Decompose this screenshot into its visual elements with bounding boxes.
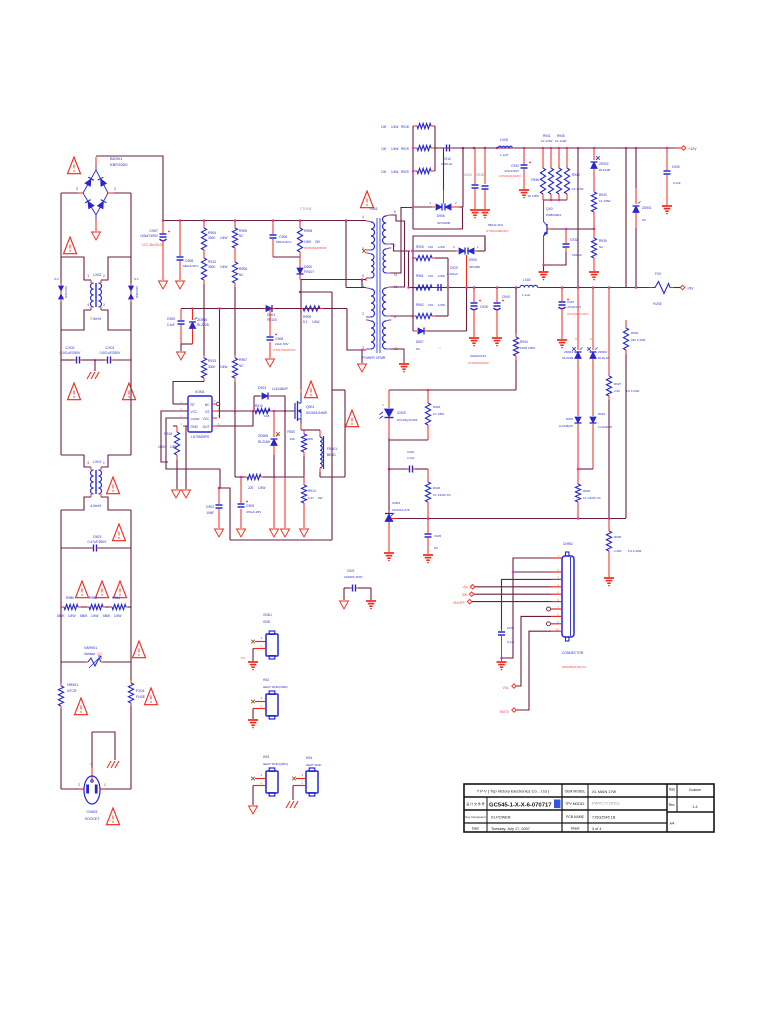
wire rails to C903 row xyxy=(60,510,62,548)
svg-text:R913: R913 xyxy=(208,359,216,363)
ground (C918) power xyxy=(480,209,490,211)
svg-text:5: 5 xyxy=(218,422,220,426)
svg-text:RLZ13B: RLZ13B xyxy=(599,168,610,172)
svg-text:RLZ16B: RLZ16B xyxy=(258,440,270,444)
svg-text:NC: NC xyxy=(239,234,244,238)
svg-text:FR103: FR103 xyxy=(267,318,277,322)
svg-text:1K8: 1K8 xyxy=(264,414,270,418)
ground (R900) power xyxy=(604,577,614,579)
wire R914 column xyxy=(303,477,305,485)
junction X-cap row xyxy=(94,359,96,361)
svg-text:ZD906: ZD906 xyxy=(197,318,207,322)
svg-text:2: 2 xyxy=(260,781,262,785)
svg-text:ZD901: ZD901 xyxy=(564,350,573,354)
svg-text:D916: D916 xyxy=(598,412,606,416)
ground (R939) power xyxy=(589,271,599,273)
warning triangle (below CX01) xyxy=(123,383,136,400)
resistor R920 10K 1/8W xyxy=(301,429,304,431)
wire x448 loop xyxy=(447,258,449,316)
wire ZD905 col to ground xyxy=(273,477,275,528)
wire socket earth loop xyxy=(92,732,115,760)
ferrite bead FB901 xyxy=(319,430,321,437)
svg-text:+12V: +12V xyxy=(688,147,697,151)
svg-text:1/4W: 1/4W xyxy=(438,303,445,307)
resistor R914 0.47 2W xyxy=(301,485,306,503)
svg-text:0.001uF/250V: 0.001uF/250V xyxy=(100,351,122,355)
resistor R942 1K 1/10W 1% xyxy=(577,469,579,484)
wire C905/ZD906 bottom xyxy=(181,343,193,345)
op-amp/PWM IC901 LD7552BPS body xyxy=(188,396,212,432)
transformer secondary winding pin 12 xyxy=(389,319,391,321)
warning triangle (left rail) xyxy=(64,237,77,254)
wire pin9 to pin10 xyxy=(391,215,405,287)
wire to earth ground xyxy=(94,360,96,371)
wire D906 center tap up xyxy=(443,190,445,204)
svg-text:R942: R942 xyxy=(583,489,591,493)
svg-text:PNB02804: PNB02804 xyxy=(546,213,561,217)
capacitor C932 1000uF xyxy=(565,229,567,243)
resistor R915 100K 1/8W xyxy=(173,425,177,427)
wire source node xyxy=(304,429,320,431)
capacitor C930 0.1uF xyxy=(666,148,668,170)
svg-text:1: 1 xyxy=(181,400,183,404)
capacitor C929 0.001uF xyxy=(435,287,437,289)
svg-text:MUTE: MUTE xyxy=(500,710,509,714)
wire IC901 OUT xyxy=(217,411,253,426)
resistor R909 5.1 1/4W xyxy=(300,308,303,310)
no-connect X on pin 5 xyxy=(362,249,366,253)
terminal +5V xyxy=(470,585,475,590)
svg-text:1.1uH: 1.1uH xyxy=(500,153,508,157)
svg-text:0.47: 0.47 xyxy=(308,496,314,500)
svg-text:TN01: TN01 xyxy=(369,207,378,211)
svg-text:3: 3 xyxy=(453,245,455,249)
svg-text:2: 2 xyxy=(455,201,457,205)
svg-text:HS4: HS4 xyxy=(306,756,312,760)
thermistor NR901 NTCR xyxy=(60,662,62,683)
resistor R981 680K 1/4W xyxy=(105,606,110,608)
+12V terminal xyxy=(675,147,682,149)
svg-text:LX08: LX08 xyxy=(500,138,508,142)
capacitor C915 470uF/16V xyxy=(561,288,563,302)
svg-text:设 计 文 件 号: 设 计 文 件 号 xyxy=(466,801,484,806)
resistor R913 300K 1/4W xyxy=(203,355,205,358)
shunt reg IC904 KIA431A-ATP xyxy=(388,469,390,511)
svg-text:GC545-1-X-X-6-070717: GC545-1-X-X-6-070717 xyxy=(489,803,552,809)
svg-text:7: 7 xyxy=(394,244,396,248)
svg-text:3: 3 xyxy=(87,461,89,465)
wire LX01 top staircase xyxy=(61,455,91,467)
wire bridge bottom to ground xyxy=(95,215,97,220)
svg-text:C929: C929 xyxy=(450,266,458,270)
svg-text:SK3440R: SK3440R xyxy=(64,286,68,298)
wire pin11 to D906 xyxy=(391,208,413,274)
wire C906 to R908 column xyxy=(273,256,300,258)
svg-text:PC123QYFZ0F: PC123QYFZ0F xyxy=(397,418,418,422)
resistor bank 2 xyxy=(550,148,552,168)
svg-text:OEM MODEL: OEM MODEL xyxy=(565,790,586,794)
svg-text:C934: C934 xyxy=(407,450,415,454)
svg-text:D900: D900 xyxy=(304,265,312,269)
svg-text:1/4W: 1/4W xyxy=(220,236,227,240)
svg-text:1: 1 xyxy=(477,245,479,249)
wire IC901 GND xyxy=(186,426,188,489)
svg-text:LL4148A/P: LL4148A/P xyxy=(272,387,288,391)
svg-text:C941: C941 xyxy=(507,626,515,630)
diode D915 LL4148A/P xyxy=(575,417,581,423)
junction D900 xyxy=(299,291,301,293)
svg-text:NC: NC xyxy=(642,218,647,222)
svg-text:9: 9 xyxy=(394,210,396,214)
svg-text:2: 2 xyxy=(114,187,116,191)
resistor R920t 100 1/4W xyxy=(413,170,417,172)
transformer winding 4 left xyxy=(366,319,368,321)
wire x626 R940 upper xyxy=(625,148,627,288)
svg-text:NC: NC xyxy=(205,403,210,407)
warning triangle (TN01) xyxy=(361,191,374,208)
svg-text:R912: R912 xyxy=(208,260,216,264)
svg-text:RL25-1B: RL25-1B xyxy=(598,356,609,360)
wire rails to varistor row xyxy=(60,607,62,662)
svg-text:C932: C932 xyxy=(570,238,578,242)
svg-text:0.1uF: 0.1uF xyxy=(167,323,175,327)
svg-text:ZD901: ZD901 xyxy=(642,206,652,210)
capacitor C925 NC xyxy=(427,519,429,534)
svg-text:R920: R920 xyxy=(287,430,295,434)
earth ground (X-caps) xyxy=(87,372,91,379)
capacitor C934 0.1uF xyxy=(389,468,407,470)
svg-text:2: 2 xyxy=(260,644,262,648)
svg-text:2W: 2W xyxy=(315,240,320,244)
ground (HS3) xyxy=(249,806,258,814)
capacitor C902 10NF xyxy=(218,487,220,489)
zener ZD911 RLZ13B xyxy=(577,288,579,351)
wire left rail upper xyxy=(60,193,62,257)
terminal SW xyxy=(469,592,474,597)
svg-text:Size: Size xyxy=(669,788,675,792)
wire D906 box xyxy=(412,207,414,229)
svg-text:100: 100 xyxy=(381,125,387,129)
svg-text:D915: D915 xyxy=(566,417,574,421)
resistor R943 1K 1/8W xyxy=(591,192,596,212)
wire D906 feed xyxy=(462,148,464,207)
svg-text:1K 1/4W: 1K 1/4W xyxy=(555,139,567,143)
svg-text:1: 1 xyxy=(87,274,89,278)
fuse FX01 xyxy=(130,662,132,680)
svg-text:N-C: N-C xyxy=(134,277,139,281)
svg-text:FG: FG xyxy=(241,656,246,660)
ground (GND1) power xyxy=(248,661,258,663)
svg-text:680K: 680K xyxy=(103,614,111,618)
common-mode choke LX02 7.0mH xyxy=(90,280,92,283)
warning triangle (LX01) xyxy=(107,477,120,494)
wire R920/ZD905 bottom row xyxy=(274,476,304,478)
svg-text:Custom: Custom xyxy=(689,788,701,792)
svg-text:1/4W: 1/4W xyxy=(220,265,227,269)
svg-text:R910: R910 xyxy=(255,404,263,408)
wire CS row verticals xyxy=(234,411,236,477)
fuse FX0 xyxy=(649,287,652,289)
svg-text:1/4W: 1/4W xyxy=(391,170,398,174)
svg-text:Key Component: Key Component xyxy=(465,815,485,819)
svg-text:NC: NC xyxy=(434,546,438,550)
svg-text:R909: R909 xyxy=(303,315,311,319)
svg-text:1: 1 xyxy=(260,696,262,700)
diode D916 LL4148A/P xyxy=(590,417,596,423)
wire +12V rail xyxy=(437,147,675,149)
wire R925 box xyxy=(413,235,485,237)
wire left edge box xyxy=(412,251,414,331)
svg-text:CT0404: CT0404 xyxy=(300,207,312,211)
svg-text:4: 4 xyxy=(181,422,183,426)
svg-text:1K 1/8W: 1K 1/8W xyxy=(599,199,611,203)
svg-text:PWPC721R511: PWPC721R511 xyxy=(592,801,621,806)
wire bridge right pin to right rail xyxy=(108,192,114,194)
svg-text:RLZ22B: RLZ22B xyxy=(197,323,209,327)
svg-text:1: 1 xyxy=(260,773,262,777)
svg-text:C940: C940 xyxy=(502,295,510,299)
ground (pin12) power xyxy=(399,363,409,365)
svg-text:R918: R918 xyxy=(401,125,409,129)
wire opto cathode row xyxy=(388,438,390,440)
warning triangle (NR901) xyxy=(75,698,88,715)
svg-text:R961: R961 xyxy=(416,274,424,278)
warning triangles (R980 R982 R981) xyxy=(76,581,89,598)
wire C902 jog to bus3 xyxy=(219,488,230,540)
svg-text:COMP: COMP xyxy=(191,417,200,421)
svg-text:C902: C902 xyxy=(206,505,214,509)
svg-text:4: 4 xyxy=(362,215,364,219)
svg-text:300K: 300K xyxy=(208,236,216,240)
svg-text:ON/OFF: ON/OFF xyxy=(453,601,465,605)
svg-text:VOL: VOL xyxy=(503,686,510,690)
svg-text:470uF-25V: 470uF-25V xyxy=(246,510,262,514)
ground (C907) xyxy=(159,281,168,289)
svg-text:2: 2 xyxy=(260,704,262,708)
diode D901 FR103 xyxy=(263,308,265,310)
svg-text:Q901: Q901 xyxy=(306,405,314,409)
resistor R967 NC xyxy=(234,355,236,358)
ground (C908) xyxy=(176,281,185,289)
svg-text:2: 2 xyxy=(301,781,303,785)
svg-text:BD901: BD901 xyxy=(110,156,123,161)
wire bridge top to HV bus xyxy=(95,165,97,170)
wire CN902 pin4 (+5V) xyxy=(475,586,551,588)
svg-text:IC904: IC904 xyxy=(392,501,400,505)
capacitor C903 0.47uF/250V xyxy=(61,547,91,549)
svg-text:CN902: CN902 xyxy=(563,542,573,546)
svg-text:OUT: OUT xyxy=(203,425,210,429)
wire IC901 RT xyxy=(173,403,188,405)
svg-text:ZD905: ZD905 xyxy=(258,434,268,438)
svg-text:HS3: HS3 xyxy=(263,755,269,759)
ground (C905) xyxy=(177,352,186,360)
svg-text:A/4: A/4 xyxy=(670,822,675,826)
svg-text:NC: NC xyxy=(239,273,244,277)
wire IC901 VCC left xyxy=(161,411,188,462)
wire CN902 pin3 xyxy=(502,579,552,629)
svg-text:SP1010B: SP1010B xyxy=(437,221,450,225)
svg-text:ZD902: ZD902 xyxy=(598,350,607,354)
svg-text:FUSE: FUSE xyxy=(136,695,146,699)
svg-text:LL4148A/P: LL4148A/P xyxy=(559,424,573,428)
inductor LX03 1.1uH xyxy=(519,287,520,289)
svg-text:R967: R967 xyxy=(239,358,247,362)
resistor R926 1K 1/10W 1% xyxy=(425,482,430,502)
svg-text:1K 1/10W 1%: 1K 1/10W 1% xyxy=(433,493,451,497)
earth ground (HS4) xyxy=(286,801,290,808)
wire R918-R920 parallel block xyxy=(412,126,414,207)
svg-text:GT021S2681HKV: GT021S2681HKV xyxy=(486,229,509,233)
svg-text:R940: R940 xyxy=(631,331,639,335)
svg-text:C921: C921 xyxy=(347,569,355,573)
svg-text:SK2645-94MR: SK2645-94MR xyxy=(306,411,328,415)
svg-text:R904: R904 xyxy=(208,231,216,235)
svg-text:5.1: 5.1 xyxy=(303,320,308,324)
svg-text:R980: R980 xyxy=(66,596,74,600)
dual diode D906 SP1010B xyxy=(413,206,432,208)
svg-text:C918: C918 xyxy=(476,173,484,177)
svg-text:100: 100 xyxy=(428,303,433,307)
svg-text:06SGB(H1)SD S1: 06SGB(H1)SD S1 xyxy=(562,665,587,669)
svg-text:C909: C909 xyxy=(246,504,254,508)
ground (C932) power xyxy=(539,271,549,273)
svg-text:R914: R914 xyxy=(308,489,316,493)
wire pin12 to ground xyxy=(391,349,404,363)
svg-text:SP1060: SP1060 xyxy=(469,265,480,269)
svg-text:2: 2 xyxy=(181,407,183,411)
diode D903 LL4148A/P xyxy=(254,395,260,397)
svg-text:1: 1 xyxy=(260,636,262,640)
svg-text:SOCKET: SOCKET xyxy=(85,817,101,821)
resistor R910 1K8 xyxy=(253,410,255,412)
svg-text:0.001uF/250V: 0.001uF/250V xyxy=(60,351,82,355)
svg-text:FUSE: FUSE xyxy=(653,302,663,306)
svg-text:BEAD: BEAD xyxy=(327,453,336,457)
svg-text:1K 1/10W 1%: 1K 1/10W 1% xyxy=(583,496,601,500)
wire right loop x345 xyxy=(344,390,346,477)
svg-text:FR107: FR107 xyxy=(304,270,314,274)
ground (IC904) power xyxy=(384,552,394,554)
svg-text:1/4W: 1/4W xyxy=(91,614,98,618)
svg-text:+5V: +5V xyxy=(687,287,694,291)
svg-text:RLZ13B: RLZ13B xyxy=(562,356,573,360)
svg-text:D905: D905 xyxy=(469,258,477,262)
zener ZD901 NC xyxy=(635,148,637,188)
svg-text:1/4W: 1/4W xyxy=(68,614,75,618)
wire feedback top row xyxy=(389,389,516,391)
svg-text:R908: R908 xyxy=(304,229,312,233)
wire FB901 bottom xyxy=(320,476,345,478)
svg-text:2: 2 xyxy=(103,274,105,278)
svg-text:0615/152W/5K8F: 0615/152W/5K8F xyxy=(304,246,327,250)
wire Q901 drain to xfmr pin6 xyxy=(300,280,302,293)
svg-text:R906: R906 xyxy=(239,267,247,271)
transistor QX0 PNB02804 xyxy=(546,224,548,234)
ground (C909) xyxy=(237,529,246,537)
warning triangle (FB901/opto) xyxy=(346,410,359,427)
svg-text:1/4W: 1/4W xyxy=(312,320,319,324)
svg-text:C912: C912 xyxy=(443,157,451,161)
svg-text:D907: D907 xyxy=(416,340,424,344)
svg-text:HEAT SINK(Q901): HEAT SINK(Q901) xyxy=(263,762,288,766)
svg-text:HEAT SINK(D906): HEAT SINK(D906) xyxy=(263,685,288,689)
wire pin3 to ground xyxy=(361,349,363,351)
wire bus3 (snubber ground) xyxy=(230,539,331,541)
svg-text:LTG 45x/311Sk: LTG 45x/311Sk xyxy=(142,243,164,247)
ground (C915) power xyxy=(557,339,567,341)
svg-text:R925: R925 xyxy=(433,405,441,409)
capacitor C908 560uF/1KV xyxy=(179,221,181,257)
wire D916 to D915 join xyxy=(578,468,593,470)
svg-text:R962: R962 xyxy=(416,303,424,307)
ground (C941) power xyxy=(501,658,503,661)
wire HV bus xyxy=(163,220,366,222)
svg-text:3 of 4: 3 of 4 xyxy=(592,827,602,831)
resistor R940 33K 1/10W xyxy=(625,320,627,328)
wire CN902 pin10 (MUTE) xyxy=(516,631,551,710)
svg-text:-.-(: -.-( xyxy=(437,346,441,350)
svg-text:GND: GND xyxy=(263,620,271,624)
svg-text:0.1uF: 0.1uF xyxy=(407,456,415,460)
svg-text:R905: R905 xyxy=(239,229,247,233)
AC socket CN901 xyxy=(84,776,100,804)
svg-text:0.1uF: 0.1uF xyxy=(507,640,515,644)
svg-text:2: 2 xyxy=(362,312,364,316)
ground (C940) power xyxy=(492,337,502,339)
svg-text:Rev.: Rev. xyxy=(669,803,675,807)
wire opto col down xyxy=(388,440,390,468)
wire aux bus xyxy=(181,308,347,310)
IC901 pin stubs left xyxy=(183,403,188,405)
svg-text:CONNECTOR: CONNECTOR xyxy=(562,651,584,655)
resistor row 316 xyxy=(413,315,416,317)
ground (R915) xyxy=(172,490,181,498)
svg-text:R945: R945 xyxy=(557,134,565,138)
svg-text:4: 4 xyxy=(87,303,89,307)
svg-text:GND1: GND1 xyxy=(263,613,272,617)
wire CN902 pin6 (ON/OFF) xyxy=(472,601,551,603)
transformer TN01 core xyxy=(376,218,378,353)
ground (bridge bottom) xyxy=(92,232,101,240)
capacitor C909 470uF/25V xyxy=(240,477,242,503)
wire D903-right leg down xyxy=(284,411,286,477)
svg-text:CX02: CX02 xyxy=(66,346,75,350)
svg-text:715G2545 1B: 715G2545 1B xyxy=(592,816,616,820)
svg-text:1/8W: 1/8W xyxy=(170,445,177,449)
resistor R939 NC xyxy=(593,229,595,238)
transformer secondary winding pin 11 xyxy=(389,247,391,249)
svg-text:100: 100 xyxy=(428,274,433,278)
capacitor C928 1000uF/16V xyxy=(473,288,475,303)
warning triangle (C903) xyxy=(113,524,126,541)
svg-text:5W: 5W xyxy=(462,593,467,597)
svg-text:1.1uH: 1.1uH xyxy=(522,293,530,297)
resistor R912b 220 1/4W xyxy=(235,476,245,478)
svg-text:NC: NC xyxy=(416,347,421,351)
wire aux tap xyxy=(345,221,347,288)
resistor R944 1K 1/4W xyxy=(566,148,568,168)
svg-text:C906: C906 xyxy=(279,235,287,239)
wire left rail to socket xyxy=(60,731,62,789)
capacitor C907 100uF/450V xyxy=(162,221,164,234)
svg-text:1000uF: 1000uF xyxy=(572,253,582,257)
svg-text:CN901: CN901 xyxy=(86,810,97,814)
svg-text:FX0: FX0 xyxy=(655,272,661,276)
svg-text:Tuesday, July 17, 2007: Tuesday, July 17, 2007 xyxy=(491,827,530,831)
svg-text:C903: C903 xyxy=(93,535,102,539)
svg-text:HS2: HS2 xyxy=(263,678,269,682)
